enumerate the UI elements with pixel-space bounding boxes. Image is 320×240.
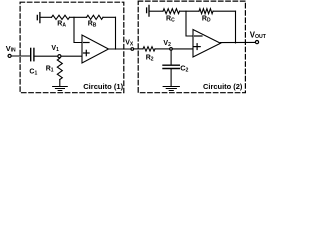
svg-text:V1: V1 xyxy=(51,45,59,53)
resistor RA xyxy=(52,15,70,19)
svg-text:RB: RB xyxy=(88,21,97,29)
ground (circuit 1, left of RA) xyxy=(37,13,40,23)
svg-text:Circuito (2): Circuito (2) xyxy=(203,82,243,91)
svg-text:C1: C1 xyxy=(29,68,37,76)
Circuito (2) dashed box xyxy=(138,1,245,93)
wire R2 to V2 xyxy=(155,48,169,50)
svg-text:VX: VX xyxy=(125,40,134,48)
node Vx xyxy=(131,48,134,51)
U1 minus glyph xyxy=(84,42,90,44)
wire V2 to op-amp U2 non-inverting input xyxy=(173,48,193,50)
svg-text:R2: R2 xyxy=(146,54,154,62)
wire RC to RD xyxy=(180,10,200,12)
resistor R1 xyxy=(57,58,62,79)
wire junction down to op-amp U2 inverting input xyxy=(186,11,193,36)
wire U2 output to VOUT xyxy=(221,41,256,43)
wire feedback down to op-amp U2 output xyxy=(235,11,237,43)
wire RB to feedback corner xyxy=(103,16,116,18)
node V2 xyxy=(170,48,173,51)
ground (circuit 2, left of RC) xyxy=(147,5,149,16)
op-amp U1 xyxy=(82,35,109,63)
ground (below C2) xyxy=(163,87,179,91)
resistor R2 xyxy=(143,47,155,51)
svg-text:Circuito (1): Circuito (1) xyxy=(83,82,123,91)
svg-text:RA: RA xyxy=(57,21,66,29)
wire junction down to op-amp U1 inverting input xyxy=(74,17,82,42)
wire Vx to R2 xyxy=(134,48,143,50)
wire U1 output to Vx xyxy=(109,48,131,50)
U2 minus glyph xyxy=(195,35,203,37)
capacitor C2 xyxy=(163,65,179,68)
resistor RC xyxy=(163,9,180,14)
svg-text:V2: V2 xyxy=(163,40,171,48)
resistor RD xyxy=(199,9,213,14)
wire RA to RB xyxy=(70,16,87,18)
wire R1 to ground xyxy=(59,80,61,87)
wire VIN to C1 xyxy=(11,55,30,57)
op-amp U2 xyxy=(193,30,221,58)
svg-text:RD: RD xyxy=(202,16,211,24)
node V1 xyxy=(58,55,61,58)
svg-text:R1: R1 xyxy=(46,66,54,74)
node VIN xyxy=(8,54,11,57)
wire RD to feedback corner xyxy=(213,10,236,12)
node VOUT xyxy=(255,41,258,44)
wire ground to RC xyxy=(150,10,163,12)
wire C1 to V1 xyxy=(34,55,58,57)
U1 plus glyph xyxy=(84,50,90,55)
wire feedback down to op-amp U1 output xyxy=(115,17,117,49)
ground (below R1) xyxy=(53,87,68,91)
wire V1 to op-amp U1 non-inverting input xyxy=(61,55,82,57)
Circuito (1) dashed box xyxy=(20,2,124,93)
wire C2 to ground xyxy=(170,69,172,86)
svg-text:RC: RC xyxy=(166,16,175,24)
wire ground to RA xyxy=(41,16,52,18)
U2 plus glyph xyxy=(194,44,200,50)
capacitor C1 xyxy=(31,48,34,60)
wire V2 down to C2 xyxy=(170,51,172,65)
resistor RB xyxy=(87,15,104,19)
